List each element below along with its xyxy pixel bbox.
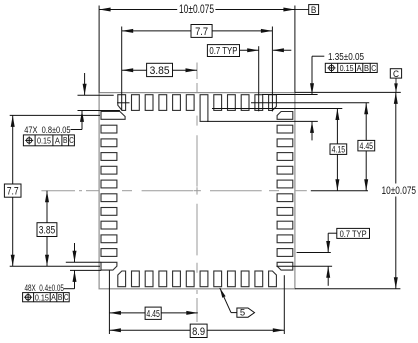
feature control frame (48X pads) [23, 292, 70, 302]
pad 10 top row [241, 95, 249, 111]
svg-text:C: C [371, 63, 376, 73]
svg-text:0.15: 0.15 [340, 63, 354, 73]
dim 4.45 bottom [109, 307, 197, 320]
dim 3.85 top [122, 63, 197, 77]
svg-text:8.9: 8.9 [192, 326, 205, 338]
pad 7 right column [277, 194, 293, 202]
pad 5 top row [173, 95, 181, 111]
pad 2 right column [277, 125, 293, 133]
dim 4.15 [330, 109, 347, 191]
datum B [309, 5, 319, 15]
baseline at center right [311, 190, 368, 192]
horizontal center line [41, 190, 306, 192]
pad 12 right column (chamfered) [277, 262, 293, 270]
bottom extension line left (pad center col) [108, 270, 110, 334]
dim 0.7 TYP right [326, 228, 369, 285]
svg-text:3.85: 3.85 [39, 225, 56, 237]
svg-text:B: B [364, 63, 369, 73]
dim 7.7 top extension lines [122, 27, 273, 112]
bottom extension line right [283, 275, 285, 334]
pad 6 left column [101, 180, 117, 188]
dim 1.35±0.05 leader and arrows [310, 56, 324, 140]
dim 0.7 TYP top [207, 45, 291, 58]
pad 10 left column [101, 235, 117, 243]
pad 2 bottom row [132, 271, 140, 287]
pad 10 right column [277, 235, 293, 243]
pad 9 right column [277, 221, 293, 229]
pad 2 left column [101, 125, 117, 133]
pad 12 top row (chamfered) [269, 95, 277, 111]
svg-text:B: B [63, 136, 68, 145]
svg-text:B: B [311, 5, 317, 15]
svg-text:0.7 TYP: 0.7 TYP [340, 229, 367, 240]
feature control frame (1.35 pad) [325, 63, 377, 73]
pentagon note 5 [237, 308, 255, 319]
pad 1 top row (pin 1, chamfered) [118, 95, 126, 111]
dim 10±0.075 top [99, 2, 295, 16]
pad 1 bottom row (chamfered) [118, 271, 126, 287]
dim 47X 0.8±0.05 text [24, 125, 70, 136]
pad 2 top row [132, 95, 140, 111]
pad 8 top row [214, 95, 222, 111]
svg-text:A: A [51, 293, 56, 302]
pad 9 top row [228, 95, 236, 111]
pad 5 left column [101, 166, 117, 174]
dim 10±0.075 right extension lines [295, 92, 401, 288]
svg-text:B: B [58, 293, 63, 302]
svg-text:10±0.075: 10±0.075 [179, 2, 214, 16]
svg-text:7.7: 7.7 [7, 186, 19, 198]
pad 4 top row [159, 95, 167, 111]
pad 11 right column [277, 249, 293, 257]
pad 7 top row (long 1.35 terminal) [200, 95, 208, 122]
svg-text:A: A [357, 63, 362, 73]
datum C leader [394, 78, 398, 92]
svg-text:4.15: 4.15 [332, 145, 346, 156]
pad 7 left column [101, 194, 117, 202]
dim 47X 0.8±0.05 arrows [71, 73, 87, 130]
svg-text:A: A [55, 135, 60, 145]
pad 9 left column [101, 221, 117, 229]
svg-text:C: C [64, 293, 69, 302]
dim 1.35±0.05 extension lines [207, 95, 318, 122]
pad 11 left column [101, 249, 117, 257]
dim 7.7 left [4, 115, 21, 266]
dim 48X 0.4±0.05 arrows [64, 243, 77, 289]
pad 6 top row [186, 95, 194, 111]
pad 11 bottom row [255, 271, 263, 287]
svg-text:4.45: 4.45 [146, 309, 160, 320]
pad 6 bottom row [186, 271, 194, 287]
dim 10±0.075 right [382, 92, 417, 288]
pad 8 bottom row [214, 271, 222, 287]
pad 11 top row [255, 95, 263, 111]
dim 47X 0.8±0.05 extension lines [78, 95, 120, 110]
dim 4.15 extension line [212, 108, 342, 110]
pad 12 bottom row (chamfered) [269, 271, 277, 287]
package body outline [99, 93, 295, 289]
dim 4.45 extension line [251, 102, 369, 104]
svg-text:7.7: 7.7 [195, 26, 208, 38]
pad 8 left column [101, 208, 117, 216]
dim 1.35±0.05 text [328, 52, 364, 63]
dim 0.7 TYP right extension lines [276, 253, 332, 267]
pad 1 right column (chamfered) [277, 112, 293, 120]
pentagon note 5 leader [220, 288, 237, 313]
pad 7 bottom row [200, 271, 208, 287]
datum C [390, 69, 401, 80]
datum B leader [295, 9, 309, 11]
pad 3 right column [277, 139, 293, 147]
svg-text:3.85: 3.85 [150, 65, 170, 77]
dim 8.9 bottom [109, 324, 284, 338]
dim 7.7 left extension lines [10, 115, 100, 266]
pad 4 bottom row [159, 271, 167, 287]
svg-text:5: 5 [240, 308, 245, 319]
pad 3 left column [101, 139, 117, 147]
pad 1 left column (pin 1, long chamfered) [101, 112, 125, 120]
dim 3.85 left [37, 191, 57, 267]
dim 10±0.075 top extension lines [99, 6, 295, 93]
pad 8 right column [277, 208, 293, 216]
svg-text:10±0.075: 10±0.075 [382, 185, 417, 197]
vertical center line [196, 63, 198, 323]
svg-text:0.15: 0.15 [37, 135, 51, 145]
pad 5 right column [277, 166, 293, 174]
svg-text:0.15: 0.15 [35, 292, 49, 302]
dim 0.7 TYP top extension line [258, 46, 260, 111]
dim 48X 0.4±0.05 extension lines [66, 262, 101, 270]
svg-text:1.35±0.05: 1.35±0.05 [328, 52, 364, 63]
svg-text:C: C [69, 136, 74, 145]
pad 6 right column [277, 180, 293, 188]
dim 48X 0.4±0.05 text [25, 283, 64, 294]
pad 4 left column [101, 153, 117, 161]
pad 12 left column (chamfered) [101, 262, 117, 270]
svg-text:C: C [393, 69, 399, 80]
pad 3 top row [145, 95, 153, 111]
pad 5 bottom row [173, 271, 181, 287]
dim 7.7 top [122, 25, 273, 38]
pad 10 bottom row [241, 271, 249, 287]
pad 9 bottom row [228, 271, 236, 287]
dim 4.45 right [358, 103, 375, 191]
pad 4 right column [277, 153, 293, 161]
pin 1 pad mid stub [117, 102, 129, 104]
pad 3 bottom row [145, 271, 153, 287]
svg-text:4.45: 4.45 [360, 141, 374, 152]
svg-text:0.7 TYP: 0.7 TYP [209, 46, 237, 57]
feature control frame (47X pads) [23, 135, 74, 146]
